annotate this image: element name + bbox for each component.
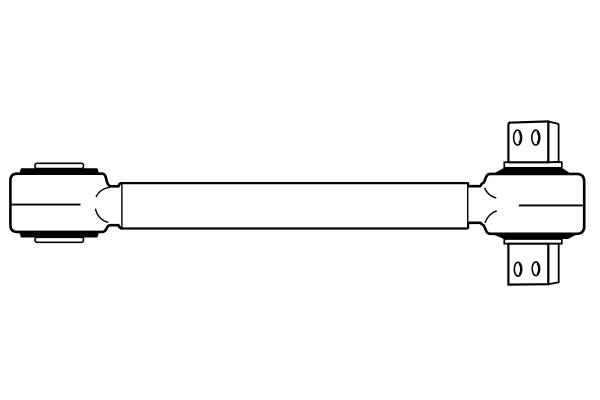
left bushing bottom rubber band <box>19 233 99 238</box>
right bushing bottom flange plate <box>504 239 562 244</box>
left bushing top cap <box>35 163 84 168</box>
bottom bracket bolt hole left inner <box>519 264 521 274</box>
bottom bracket bolt hole left <box>514 262 521 276</box>
left bushing cone arc upper <box>96 187 110 197</box>
right bushing bottom rubber wedge <box>493 234 577 239</box>
right bushing cone arc upper <box>485 188 497 198</box>
right top bracket front face <box>508 121 548 162</box>
top bracket bolt hole right <box>532 130 540 145</box>
top bracket bolt hole left inner <box>519 132 521 143</box>
right top bracket side face <box>548 122 558 163</box>
rod left end cap line <box>121 183 123 229</box>
rod right end cap line <box>467 182 469 229</box>
right bushing cone arc lower <box>485 211 497 223</box>
rod tube bottom line <box>121 227 468 229</box>
left bushing cone arc lower <box>96 209 109 223</box>
right bottom bracket front face <box>508 244 548 285</box>
rod tube top line <box>121 182 468 184</box>
right bushing top rubber wedge <box>494 168 571 174</box>
right bushing top flange plate <box>504 162 562 168</box>
left bushing housing outline <box>10 174 121 232</box>
bottom bracket bolt hole right <box>532 262 539 276</box>
bottom bracket bolt hole right inner <box>537 264 539 274</box>
right bushing housing outline <box>468 174 584 234</box>
top bracket bolt hole right inner <box>537 132 539 143</box>
left bushing bottom cap <box>35 237 84 242</box>
left bushing top rubber band <box>19 168 99 173</box>
right bushing mid split line <box>519 204 583 206</box>
left bushing mid split line <box>11 204 81 206</box>
top bracket bolt hole left <box>514 130 522 145</box>
right bottom bracket side face <box>548 244 558 285</box>
